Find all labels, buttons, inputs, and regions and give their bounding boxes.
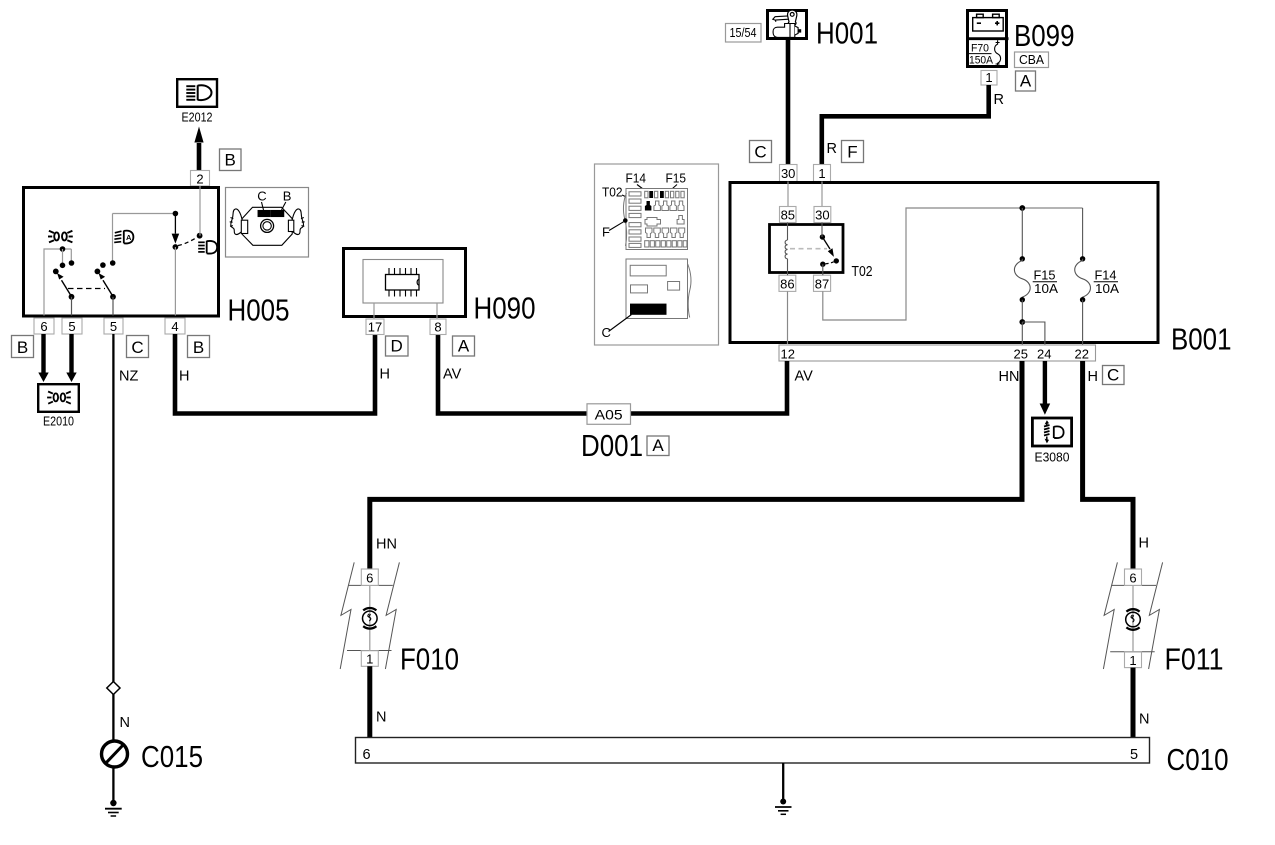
relay actuation dashed line: [790, 248, 827, 250]
high beam lamps E2012: [177, 79, 217, 124]
H005 front fog icon with A: [114, 231, 133, 244]
pin 2 of H005: [191, 171, 210, 187]
label B (pin 4): [188, 336, 210, 358]
label CBA: [1015, 52, 1049, 68]
lower unit connector highlighted: [630, 304, 667, 315]
left small rect: [241, 220, 247, 233]
svg-text:85: 85: [781, 208, 795, 223]
svg-text:H: H: [1139, 536, 1149, 552]
wire F010 pin1 to C010: [367, 666, 372, 737]
svg-text:B001: B001: [1171, 322, 1232, 357]
front fog lamp F011: [1103, 562, 1162, 669]
svg-text:A: A: [1020, 72, 1032, 91]
label B (pin 6): [12, 336, 34, 358]
svg-text:A: A: [652, 436, 664, 455]
tail lights E2010: [38, 384, 79, 428]
wire relay 87 to fuses: [823, 208, 1083, 320]
fuse F14: [1075, 208, 1120, 345]
svg-text:E2010: E2010: [43, 414, 74, 429]
svg-text:H: H: [380, 367, 390, 383]
svg-text:AV: AV: [795, 369, 814, 385]
E2010 icon: [47, 392, 71, 404]
H090 inner board: [363, 260, 443, 304]
relay T02 box: [770, 225, 844, 273]
wire pin 2 down to contact: [199, 186, 201, 236]
node pin2 contact: [197, 233, 203, 239]
svg-text:87: 87: [815, 277, 829, 292]
H090 control unit: [344, 249, 466, 317]
svg-text:AV: AV: [443, 367, 462, 383]
left switch arm: [57, 273, 74, 300]
ground distribution bar C010: [356, 738, 1150, 764]
F010 partial boundary zigzag right: [385, 562, 399, 669]
battery B099: [966, 11, 1009, 67]
H001 key icon: [773, 10, 801, 37]
wire board to pin 17: [373, 303, 375, 319]
pointer line T02: [622, 195, 647, 206]
F010 pin 6: [361, 569, 378, 585]
svg-text:F15: F15: [666, 172, 687, 186]
H005 low beam icon: [198, 241, 217, 254]
bottom square row: [645, 241, 687, 247]
fuse F70 symbol: [995, 40, 1001, 66]
wire AV pin12 to A05: [438, 334, 787, 414]
wire H001 to B001 pin 30: [786, 40, 791, 165]
svg-text:150A: 150A: [969, 55, 994, 67]
relay switch arm with arrowhead: [822, 223, 834, 257]
svg-text:E2012: E2012: [182, 110, 213, 125]
right switch arm: [99, 273, 116, 300]
relay pin 30: [814, 207, 831, 223]
wire B001 pin1 to relay 30: [821, 182, 823, 208]
wire right switch pivot to pin 5b: [112, 297, 114, 316]
svg-text:5: 5: [1130, 747, 1138, 763]
wire H pin22 to F011: [1083, 361, 1133, 569]
contact stub left switch b: [70, 249, 72, 263]
svg-text:C: C: [131, 338, 143, 357]
right wavy contour: [688, 264, 691, 318]
fusebox left fuse column: [629, 192, 641, 248]
pin 1 of B001: [814, 165, 831, 182]
label C (pin 5b): [127, 336, 149, 358]
F011 bottom separator: [1110, 651, 1155, 653]
svg-text:NZ: NZ: [119, 369, 138, 385]
light switch unit H005: [24, 188, 219, 317]
relay contact 87a node: [834, 258, 839, 263]
svg-text:HN: HN: [376, 537, 397, 553]
label F (above B001 pin 1): [842, 141, 864, 163]
svg-text:6: 6: [366, 571, 373, 586]
svg-text:H090: H090: [474, 291, 536, 326]
svg-text:86: 86: [780, 277, 794, 292]
svg-text:D: D: [391, 337, 403, 356]
svg-text:8: 8: [434, 320, 441, 335]
svg-text:N: N: [1139, 712, 1149, 728]
node on pin6 net: [60, 246, 66, 252]
third switch arm arrow down: [172, 214, 180, 244]
svg-text:1: 1: [985, 70, 992, 85]
F010 top separator: [348, 584, 393, 586]
steering column inset box: [226, 188, 309, 258]
svg-text:N: N: [120, 715, 130, 731]
lower unit window 1: [630, 265, 666, 276]
wire arrow pin 5a to E2010: [66, 334, 76, 382]
H005 interior wire to third switch: [113, 213, 176, 215]
svg-text:C: C: [1107, 366, 1119, 385]
wire F011 pin1 to C010: [1131, 668, 1136, 737]
relay pin 86: [779, 275, 796, 291]
pin 6 of H005: [34, 318, 54, 334]
svg-text:24: 24: [1037, 347, 1051, 362]
fuse F15: [1014, 208, 1058, 322]
svg-text:B: B: [193, 338, 204, 357]
wire NZ H005 pin5b to C015: [112, 334, 114, 803]
pin 17 of H090: [366, 319, 384, 335]
wire left switch pivot to pin 5a: [71, 297, 73, 316]
lower unit window 3: [668, 282, 680, 291]
F011 bulb: [1126, 609, 1141, 630]
E3080 icon: [1044, 420, 1064, 443]
svg-text:A05: A05: [595, 407, 623, 423]
junction unit B001 box: [730, 183, 1158, 343]
pin 30 of B001: [780, 165, 798, 182]
left stalk: [231, 209, 242, 235]
wire arrow pin 6 to E2010: [38, 334, 48, 382]
F pointer node: [623, 218, 628, 223]
pointer line F15: [664, 185, 678, 197]
svg-text:F011: F011: [1165, 642, 1224, 677]
svg-text:4: 4: [171, 319, 178, 334]
F010 bulb: [363, 608, 378, 629]
E2012 high-beam icon: [186, 85, 211, 100]
svg-text:B: B: [17, 338, 28, 357]
wire relay 86 to pin 12: [787, 291, 789, 344]
svg-text:1: 1: [1129, 653, 1136, 668]
svg-text:T02: T02: [852, 264, 873, 280]
lower unit window 2: [631, 285, 648, 293]
connector C block: [258, 211, 270, 217]
svg-text:30: 30: [781, 166, 795, 181]
svg-text:B099: B099: [1014, 18, 1075, 53]
pointer line F14: [637, 185, 649, 194]
F011 pin 1: [1125, 652, 1142, 668]
left wavy contour: [623, 193, 626, 246]
relay switch contact 30: [820, 234, 825, 239]
svg-text:6: 6: [40, 319, 47, 334]
right switch contact b with stub: [112, 214, 114, 264]
pin 1 of B099: [981, 70, 997, 85]
mechanical link dashed: [68, 288, 105, 290]
svg-text:2: 2: [196, 172, 203, 187]
splice diamond on NZ wire: [107, 682, 120, 695]
F011 top separator: [1111, 584, 1156, 586]
H005 interior wire pin6 net: [44, 249, 71, 316]
label A (D001): [647, 436, 669, 456]
wire B001 pin30 to relay 85: [787, 182, 789, 207]
H005 parking lights icon: [48, 231, 73, 243]
svg-text:A: A: [126, 233, 132, 242]
fusebox top fuse row: [645, 191, 685, 198]
relay dashed contact arc: [826, 262, 835, 264]
svg-text:C010: C010: [1167, 742, 1229, 777]
fuse F15 highlighted: [660, 191, 664, 198]
svg-text:1: 1: [366, 652, 373, 667]
label D (pin 17): [386, 336, 409, 356]
svg-text:C015: C015: [141, 739, 203, 774]
pin 8 of H090: [430, 319, 446, 335]
contact stub left switch a: [62, 249, 64, 265]
svg-text:HN: HN: [999, 369, 1020, 385]
F011 pin 6: [1125, 569, 1142, 585]
svg-text:T02: T02: [602, 186, 623, 200]
svg-text:H001: H001: [816, 16, 878, 51]
headlamp leveling E3080: [1032, 418, 1071, 465]
H090 IC chip icon: [386, 268, 420, 297]
svg-text:C: C: [602, 325, 611, 340]
F011 internal wire: [1132, 585, 1134, 652]
B099 battery icon: [973, 14, 1004, 31]
F011 partial boundary zigzag right: [1149, 562, 1163, 669]
wire R from B099 to B001 pin 1: [822, 85, 989, 165]
fuse F14 highlighted: [649, 191, 653, 198]
F010 pin 1: [361, 651, 378, 667]
junction node at F15: [1019, 205, 1025, 211]
svg-text:10A: 10A: [1034, 281, 1058, 296]
label C (above B001 pin 30): [750, 141, 772, 163]
wire HN pin25 to F010: [370, 361, 1022, 569]
B001 bottom connector bar: [779, 345, 1096, 361]
relay row outlines: [654, 201, 684, 211]
relay pin 87: [814, 275, 831, 291]
pin 5b of H005: [104, 318, 123, 334]
svg-text:H: H: [1088, 369, 1098, 385]
relay contact 87 node: [820, 262, 825, 267]
svg-text:10A: 10A: [1095, 281, 1119, 296]
svg-text:25: 25: [1014, 347, 1028, 362]
wire arrow pin24 to E3080: [1040, 361, 1051, 415]
wire F15 to pin 25: [1021, 322, 1023, 345]
svg-text:15/54: 15/54: [730, 25, 757, 40]
svg-text:E3080: E3080: [1035, 450, 1070, 465]
svg-text:5: 5: [68, 319, 75, 334]
svg-text:N: N: [376, 710, 386, 726]
pin 4 of H005: [165, 318, 185, 334]
relay T02 highlighted: [645, 201, 652, 211]
svg-text:C: C: [257, 189, 266, 204]
F011 partial boundary zigzag left: [1103, 562, 1117, 669]
label 15/54: [726, 24, 762, 43]
right switch contact a: [100, 262, 106, 268]
wire H from H005 pin4 to H090 pin17: [175, 334, 375, 414]
fusebox outline: [626, 189, 688, 250]
relay coil: [785, 223, 787, 276]
svg-text:12: 12: [781, 347, 795, 362]
connector A05 label box: [587, 404, 631, 425]
F010 bottom separator: [347, 650, 392, 652]
svg-text:F: F: [602, 225, 610, 240]
lower relay row: [646, 228, 685, 238]
svg-text:6: 6: [1129, 571, 1136, 586]
label C (pin 22): [1103, 366, 1125, 385]
junction node F15 bottom: [1019, 319, 1025, 325]
small pentagon: [677, 216, 684, 225]
svg-text:B: B: [225, 151, 236, 170]
left switch common contact: [53, 269, 59, 275]
steering column icon: [230, 207, 305, 245]
svg-text:D001: D001: [581, 428, 643, 463]
ground symbol below C010: [775, 799, 792, 815]
pin 5a of H005: [62, 318, 82, 334]
svg-text:F: F: [847, 143, 857, 162]
lower unit outline: [626, 259, 688, 319]
svg-text:6: 6: [363, 747, 371, 763]
F010 partial boundary zigzag left: [340, 562, 354, 669]
label A (pin 8): [453, 336, 475, 356]
label A (B099): [1016, 71, 1036, 91]
right switch common contact: [95, 269, 101, 275]
svg-text:A: A: [458, 337, 470, 356]
svg-text:CBA: CBA: [1019, 52, 1044, 67]
wire relay 87 pin down: [822, 264, 824, 275]
svg-text:5: 5: [110, 319, 117, 334]
svg-text:B: B: [283, 189, 292, 204]
wire F15 to pin 24: [1022, 322, 1045, 345]
F010 internal wire: [369, 585, 371, 651]
svg-text:R: R: [827, 141, 837, 157]
ignition switch H001: [768, 10, 807, 39]
wire board to pin 8: [436, 303, 438, 319]
center plug shape: [645, 218, 661, 227]
dashed alternate position arc: [178, 237, 197, 245]
svg-text:30: 30: [815, 208, 829, 223]
third switch lower contact: [173, 244, 179, 250]
svg-text:F010: F010: [400, 642, 459, 677]
ground connection C015: [102, 741, 128, 767]
right stalk: [292, 209, 303, 235]
svg-text:1: 1: [818, 166, 825, 181]
svg-text:17: 17: [368, 320, 382, 335]
ground symbol below C015: [105, 800, 122, 816]
wire third switch to pin 4: [174, 247, 176, 316]
connector B block: [271, 211, 283, 217]
fusebox location inset: [595, 164, 719, 345]
node third switch top: [173, 211, 179, 217]
svg-text:H005: H005: [228, 293, 290, 328]
svg-text:R: R: [994, 92, 1004, 108]
relay pin 85: [780, 207, 797, 223]
label B (pin 2): [220, 149, 242, 171]
svg-text:F70: F70: [971, 43, 989, 55]
wire C010 to ground: [782, 763, 784, 801]
svg-text:C: C: [754, 143, 766, 162]
svg-text:F14: F14: [626, 172, 647, 186]
wire arrow H005 pin 2 to E2012: [194, 127, 203, 172]
svg-text:22: 22: [1075, 347, 1089, 362]
svg-text:H: H: [179, 369, 189, 385]
front fog lamp F010: [340, 562, 399, 669]
